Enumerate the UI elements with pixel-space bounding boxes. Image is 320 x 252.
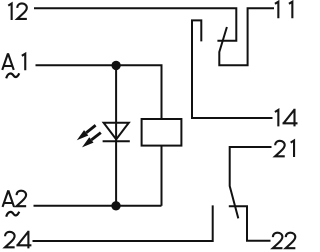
relay coil K1 bbox=[142, 119, 182, 146]
wire coil bottom to A2 bbox=[161, 146, 163, 206]
LED D1 triangle bbox=[104, 123, 129, 140]
wire 24 NO fixed contact pole 2 bbox=[33, 205, 213, 241]
AC symbol tilde under A2 bbox=[6, 212, 19, 217]
terminal label A2 bbox=[3, 190, 27, 207]
AC symbol tilde under A1 bbox=[6, 73, 19, 78]
wire 11 common + movable contact pole 1 bbox=[219, 8, 274, 65]
wire A1 to coil top bbox=[36, 65, 162, 119]
LED light emission arrow lower bbox=[82, 133, 101, 148]
terminal label 14 bbox=[275, 109, 298, 127]
terminal label A1 bbox=[2, 53, 25, 70]
terminal label 12 bbox=[8, 3, 27, 20]
wire 14 NO fixed contact pole 1 bbox=[192, 20, 273, 118]
LED cathode bar bbox=[103, 140, 130, 142]
node junction dot A2/LED bbox=[111, 201, 120, 210]
wire 21 common + movable contact pole 2 bbox=[230, 147, 272, 218]
wire 12 NC fixed contact pole 1 bbox=[34, 8, 236, 41]
node junction dot A1/LED bbox=[111, 61, 120, 70]
terminal label 21 bbox=[275, 141, 294, 158]
terminal label 11 bbox=[275, 2, 292, 19]
wire 22 NC fixed contact pole 2 bbox=[229, 206, 271, 241]
terminal label 22 bbox=[273, 233, 296, 249]
wire A2 horizontal bbox=[34, 205, 162, 207]
terminal label 24 bbox=[5, 231, 31, 249]
LED light emission arrow upper bbox=[77, 125, 96, 140]
wire LED branch vertical bbox=[115, 65, 117, 206]
